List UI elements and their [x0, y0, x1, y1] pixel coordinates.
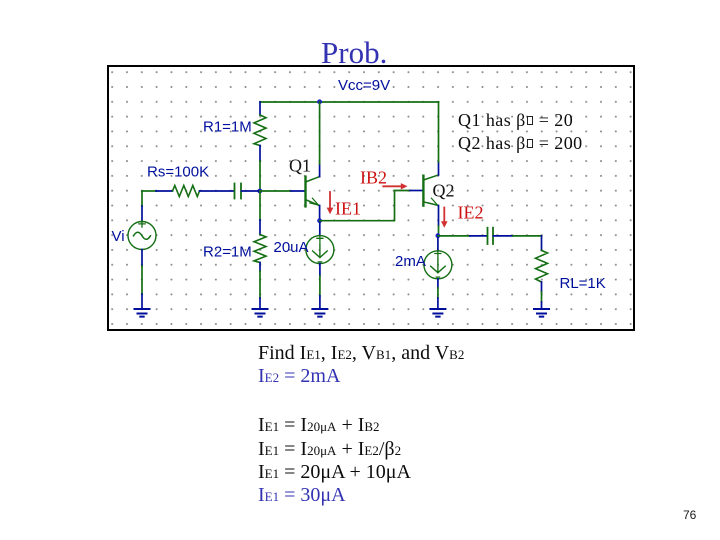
ground (R2) — [253, 309, 268, 317]
wire: Q2 collector up to rail — [438, 102, 440, 162]
source Vi — [141, 206, 143, 222]
capacitor C1 — [234, 184, 236, 199]
arrow IE1 — [329, 192, 331, 209]
svg-text:20uA: 20uA — [274, 239, 309, 256]
svg-text:IB2: IB2 — [360, 168, 387, 188]
page number — [683, 508, 696, 522]
node: Vcc junction dot — [317, 99, 322, 104]
title Prob. — [321, 37, 387, 68]
wire: Q2 emitter node to output cap — [438, 235, 470, 237]
svg-text:Q1: Q1 — [289, 156, 311, 176]
schematic bounding box with dotted grid — [107, 65, 635, 331]
wire: base node to Q1 base — [260, 190, 291, 192]
wire: top Vcc rail — [260, 101, 439, 103]
transistor Q2 — [422, 176, 424, 206]
resistor R1 — [259, 102, 261, 115]
current source 20uA — [319, 221, 321, 236]
svg-text:Vcc=9V: Vcc=9V — [338, 77, 390, 94]
resistor RL — [541, 236, 543, 251]
resistor Rs — [156, 190, 173, 192]
svg-text:2mA: 2mA — [395, 253, 426, 270]
wire: R1 to base node — [259, 161, 261, 191]
arrow IE2 — [443, 208, 445, 223]
wire: base node down to R2 — [259, 191, 261, 220]
svg-text:Rs=100K: Rs=100K — [147, 164, 209, 181]
ground (2mA) — [430, 309, 445, 317]
svg-text:Vi: Vi — [112, 228, 125, 245]
svg-text:IE2: IE2 — [458, 202, 484, 222]
ground (RL) — [534, 309, 549, 317]
resistor R2 — [259, 220, 261, 235]
wire: Q1 emitter node to Q2 base — [320, 191, 410, 221]
svg-text:R2=1M: R2=1M — [203, 244, 252, 261]
transistor Q1 — [304, 177, 306, 207]
svg-text:R1=1M: R1=1M — [203, 119, 252, 136]
wire: Q1 collector up to rail — [319, 102, 321, 164]
arrow IB2 — [383, 185, 402, 187]
text: Q1/Q2 beta note — [458, 109, 583, 155]
wire: Vi top bend to Rs — [142, 190, 156, 192]
svg-text:IE1: IE1 — [335, 199, 361, 219]
node: Q1 emitter dot — [317, 218, 322, 223]
ground (20uA) — [312, 309, 327, 317]
text: equations block — [258, 342, 464, 507]
node: Q2 emitter dot — [436, 233, 441, 238]
ground (Vi) — [135, 309, 150, 317]
current source 2mA — [437, 236, 439, 251]
capacitor C2 — [487, 228, 489, 244]
node: Q1 base node dot — [257, 189, 262, 194]
svg-text:Q2: Q2 — [433, 180, 455, 200]
svg-text:RL=1K: RL=1K — [560, 275, 606, 292]
